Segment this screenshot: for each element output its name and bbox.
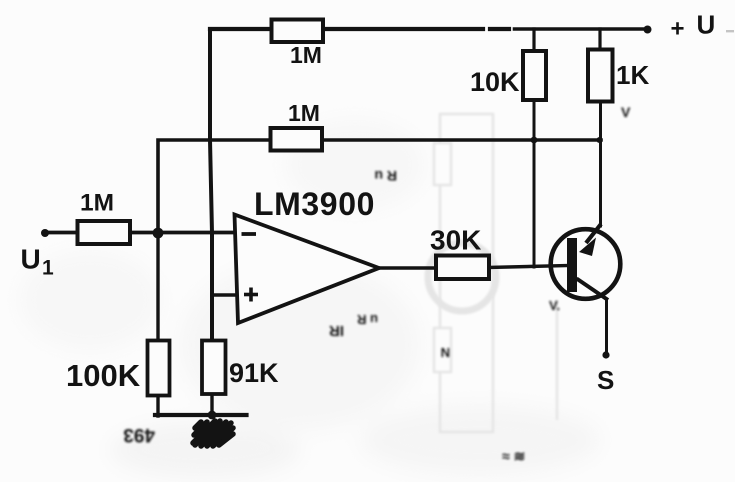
svg-text:493: 493 — [123, 424, 155, 445]
wire: 100K to ground bar — [156, 395, 159, 416]
minus input symbol — [242, 232, 257, 236]
wire: +U rail dash segment — [490, 27, 509, 31]
svg-text:V: V — [621, 104, 631, 120]
wire: plus-input stub — [212, 293, 239, 297]
svg-text:91K: 91K — [229, 358, 279, 388]
ghost bleed-through rectangle — [434, 114, 557, 432]
svg-text:100K: 100K — [66, 358, 141, 393]
wire: op-amp output to 30K — [379, 266, 437, 269]
svg-text:1M: 1M — [80, 190, 114, 217]
svg-text:1M: 1M — [290, 42, 322, 68]
node: input terminal U1 — [41, 229, 49, 237]
node: junction input/feedback/100K — [153, 228, 164, 239]
resistor R 1K — [588, 50, 649, 102]
op-amp U1 LM3900 triangle — [235, 186, 380, 323]
ghost transistor circle — [428, 243, 496, 311]
svg-text:U: U — [21, 244, 41, 275]
transistor Q1 collector diagonal — [577, 279, 609, 301]
transistor Q1 emitter with arrow into base — [579, 224, 601, 256]
resistor R 30K — [430, 225, 489, 280]
svg-text:IR: IR — [329, 322, 344, 339]
svg-text:V.: V. — [549, 298, 560, 313]
wire: input from U1 terminal to op-amp minus — [45, 231, 238, 235]
node: junction second rail / 10K vertical — [531, 137, 538, 144]
resistor R 1M middle (feedback) — [271, 100, 323, 151]
svg-text:U: U — [697, 10, 716, 40]
wire: 1K down to emitter — [599, 101, 602, 226]
paper tone mottling — [20, 120, 600, 478]
small stray mark right edge — [726, 30, 734, 32]
node: ground junction — [208, 411, 217, 420]
resistor R 1M top (to +U rail) — [272, 20, 324, 69]
wire: vertical junction to 100K — [156, 233, 159, 341]
resistor R 1M input — [78, 190, 131, 245]
wire: 10K top connection — [532, 29, 535, 53]
resistor R 10K — [470, 51, 546, 100]
svg-text:LM3900: LM3900 — [254, 186, 375, 222]
ghost texts — [123, 104, 631, 464]
ground bar — [155, 413, 247, 417]
wire: second rail (feedback) — [158, 140, 601, 233]
svg-text:10K: 10K — [470, 67, 520, 97]
wire: 30K to transistor base — [488, 266, 569, 268]
svg-text:30K: 30K — [430, 225, 481, 256]
svg-text:R u: R u — [374, 168, 397, 184]
svg-text:S: S — [597, 365, 614, 395]
svg-text:≈ ≋: ≈ ≋ — [502, 448, 525, 464]
transistor Q1 base bar — [567, 238, 577, 292]
plus input symbol — [244, 293, 258, 297]
ghost dashed bottom edge — [428, 436, 520, 438]
svg-text:+: + — [671, 16, 685, 43]
wire: 91K to ground bar — [210, 394, 213, 416]
wire: 1K top connection — [598, 29, 601, 51]
wire: +U rail right part to terminal — [515, 27, 648, 31]
ground hatched block — [193, 421, 233, 446]
resistor R 100K — [66, 341, 170, 396]
node: S terminal — [602, 351, 609, 358]
svg-text:u R: u R — [356, 312, 378, 327]
transistor Q1 circle — [551, 229, 621, 299]
svg-text:N: N — [441, 345, 450, 360]
svg-text:1K: 1K — [616, 60, 649, 90]
wire: 10K down to base node — [533, 100, 536, 267]
svg-text:1: 1 — [42, 257, 54, 280]
wire: collector down to S terminal — [605, 299, 608, 352]
node: corner second rail / 1K vertical — [597, 137, 603, 143]
wire: left vertical from top rail down to 91K — [210, 29, 212, 341]
svg-text:1M: 1M — [288, 100, 320, 126]
resistor R 91K — [202, 341, 279, 395]
node: +U terminal — [644, 26, 652, 34]
wire: +U top rail solid left part — [210, 27, 483, 31]
